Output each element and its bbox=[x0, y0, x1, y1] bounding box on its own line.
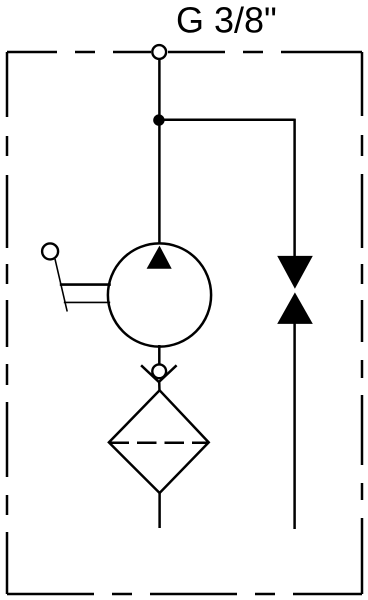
wire: below shut-off valve to open end bbox=[293, 323, 296, 529]
hand pump circle P1 bbox=[108, 243, 211, 346]
filter element dashed line bbox=[110, 442, 209, 445]
wire: right branch vertical down to shut-off valve bbox=[293, 119, 296, 257]
svg-text:G 3/8": G 3/8" bbox=[176, 0, 277, 41]
pump flow triangle (solid, pointing up) bbox=[147, 246, 172, 269]
wire: pump bottom to check ball bbox=[158, 345, 161, 364]
wire: junction to right branch horizontal bbox=[159, 119, 295, 122]
wire: seat to filter top bbox=[158, 381, 161, 392]
wire: filter bottom suction line bbox=[158, 492, 161, 528]
shut-off valve (two solid triangles) bbox=[277, 256, 313, 289]
lever lower arm line bbox=[64, 301, 110, 303]
wire: port down to pump bbox=[158, 59, 161, 245]
lever upper arm line bbox=[60, 283, 111, 286]
lever shaft bbox=[55, 259, 67, 312]
port circle G 3/8" bbox=[152, 45, 166, 59]
filter F1 diamond bbox=[109, 390, 209, 493]
lever knob circle bbox=[42, 243, 58, 259]
junction dot bbox=[153, 114, 164, 125]
check valve ball bbox=[152, 364, 166, 378]
check valve seat (V) bbox=[141, 365, 177, 382]
